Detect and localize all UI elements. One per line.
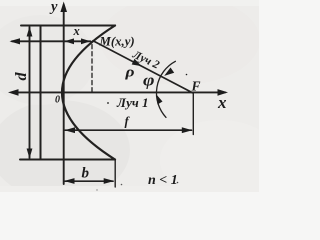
- svg-text:y: y: [49, 0, 58, 15]
- y-axis arrowhead: [60, 2, 67, 13]
- b right arrowhead: [104, 178, 115, 184]
- f dimension line: [65, 129, 192, 131]
- svg-text:ρ: ρ: [124, 65, 134, 81]
- f left arrowhead: [65, 127, 76, 133]
- F extension line: [192, 93, 194, 135]
- svg-text:F: F: [191, 79, 201, 94]
- lens curved surface (parabola): [62, 26, 115, 160]
- phi arc arrowhead at axis: [156, 94, 162, 104]
- svg-text:n < 1: n < 1: [148, 173, 178, 188]
- svg-text:φ: φ: [143, 71, 155, 90]
- speck right of b line: [121, 184, 123, 186]
- x-dim arrowhead at M: [81, 38, 91, 44]
- svg-text:x: x: [73, 24, 80, 38]
- b right extension line: [114, 160, 116, 187]
- svg-text:M(x,y): M(x,y): [99, 35, 135, 49]
- dot left of F: [186, 74, 188, 76]
- svg-text:Луч 1: Луч 1: [116, 95, 149, 110]
- d top arrowhead: [27, 27, 33, 37]
- arrowhead left end of line through M: [10, 38, 21, 44]
- x-axis left arrowhead: [8, 89, 19, 96]
- svg-text:x: x: [217, 93, 227, 112]
- svg-text:b: b: [82, 165, 90, 181]
- d bottom arrowhead: [27, 149, 33, 159]
- x-axis right arrowhead: [218, 89, 229, 96]
- d dimension line: [29, 27, 31, 158]
- svg-text:0: 0: [55, 95, 60, 106]
- svg-text:d: d: [13, 72, 30, 81]
- lens top line: [21, 25, 115, 27]
- y-axis: [63, 5, 65, 184]
- f right arrowhead: [182, 127, 193, 133]
- speck bottom: [96, 189, 97, 190]
- dashed drop line from M: [91, 45, 93, 94]
- lens flat left face: [40, 26, 42, 160]
- phi arc arrowhead at ray: [164, 68, 174, 76]
- phi angle arc around F: [156, 61, 175, 117]
- ray 2 direction arrowhead: [132, 59, 142, 66]
- x-dim arrowhead at y-axis: [65, 38, 75, 44]
- lens bottom line: [20, 159, 115, 161]
- x-axis: [12, 91, 225, 93]
- dot left of Luch 1 label: [107, 102, 109, 104]
- ray 2 (M to F): [93, 41, 193, 93]
- b dimension line: [65, 180, 113, 182]
- incident horizontal line through M with x-dimension: [12, 40, 91, 42]
- b left arrowhead: [64, 178, 75, 184]
- paper background: [0, 0, 259, 192]
- dot after n<1: [177, 182, 179, 184]
